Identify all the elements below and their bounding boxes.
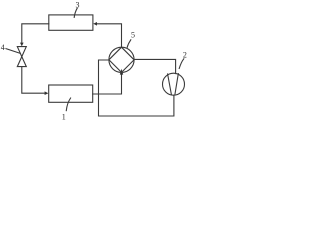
compressor 2 internal vane right <box>175 74 178 94</box>
compressor 2 internal vane left <box>168 74 172 94</box>
heat exchanger 3 (top rectangle) <box>49 15 93 30</box>
arrow into evaporator 1 <box>45 91 49 95</box>
leader line for label 2 <box>179 59 184 69</box>
label 1 <box>62 113 66 122</box>
arrow into four-way valve 5 bottom port <box>120 69 123 75</box>
svg-text:1: 1 <box>62 113 66 120</box>
four-way valve 5 (inscribed diamond) <box>109 47 134 72</box>
expansion valve 4 (hourglass, top triangle) <box>17 47 26 57</box>
label 5 <box>131 31 135 40</box>
wire: condenser 3 left side to expansion valve top <box>22 24 49 43</box>
arrow into expansion valve 4 <box>20 43 24 47</box>
wire: evaporator 1 right side to four-way valve bottom <box>93 75 122 94</box>
leader line for label 3 <box>74 8 77 17</box>
svg-text:2: 2 <box>183 51 187 60</box>
wire: expansion valve bottom to evaporator 1 left side <box>22 67 45 94</box>
svg-text:4: 4 <box>1 43 5 52</box>
svg-text:5: 5 <box>131 31 135 40</box>
wire: four-way valve right port to compressor top <box>134 59 176 73</box>
label 3 <box>76 0 80 9</box>
wire: four-way valve left port down and along bottom to compressor bottom <box>99 60 174 116</box>
label 2 <box>183 51 187 60</box>
label 4 <box>1 43 5 52</box>
leader line for label 5 <box>127 40 131 48</box>
expansion valve 4 (hourglass, bottom triangle) <box>17 57 26 67</box>
leader line for label 4 <box>6 49 20 54</box>
heat exchanger 1 (bottom rectangle) <box>49 85 93 102</box>
arrow into condenser 3 <box>93 22 97 26</box>
wire: four-way valve top port to condenser 3 right side <box>97 24 122 47</box>
four-way valve 5 (circle body) <box>109 47 134 72</box>
leader line for label 1 <box>66 98 70 111</box>
compressor 2 (circle body) <box>163 73 185 95</box>
